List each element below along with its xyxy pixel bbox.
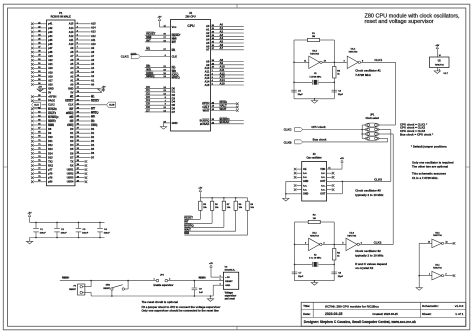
- capacitor C4 100nF: [99, 222, 101, 228]
- U1 pin 33 A3: [211, 35, 244, 37]
- U1 pin 37 A7: [211, 49, 244, 51]
- svg-text:RESET: RESET: [199, 278, 207, 280]
- U1 pin 16 /INT: [145, 41, 171, 43]
- U1 pin 35 A5: [211, 42, 244, 44]
- wire osc2 input rail: [294, 222, 296, 281]
- svg-text:Schematic:: Schematic:: [422, 304, 439, 308]
- svg-text:M1: M1: [146, 47, 150, 51]
- svg-text:100nF: 100nF: [82, 233, 89, 235]
- U1 pin 31 A1: [211, 29, 244, 31]
- title block: [301, 302, 466, 326]
- ground U2 pin 7: [436, 68, 438, 71]
- svg-text:RX2: RX2: [48, 165, 53, 168]
- svg-text:22pF: 22pF: [338, 276, 344, 278]
- svg-text:TX: TX: [70, 160, 74, 163]
- oscillator 2 feedback resistor R2 1M: [295, 221, 309, 223]
- svg-text:CLK2: CLK2: [374, 240, 382, 244]
- X3 VDD to +5V: [341, 164, 343, 169]
- svg-text:U2.2: U2.2: [312, 233, 317, 235]
- U1 pin 21 /RD: [145, 67, 171, 69]
- wire reset ground rail: [91, 295, 213, 297]
- ground unused gates: [416, 288, 422, 291]
- wire /RESET net: [60, 280, 156, 282]
- svg-text:74HCT04: 74HCT04: [348, 50, 358, 53]
- wire CLK1 from U2.4 output to JP1: [361, 61, 396, 63]
- svg-text:HALT2: HALT2: [48, 112, 56, 115]
- U1 pin 25 /BUSRQ: [211, 120, 244, 122]
- svg-text:D0: D0: [172, 86, 176, 90]
- U1 pin 36 A6: [211, 45, 244, 47]
- svg-text:74HCT04: 74HCT04: [435, 63, 445, 66]
- svg-text:CLK2: CLK2: [48, 104, 55, 107]
- U1 pin 40 A10: [211, 67, 244, 69]
- svg-text:+RFSH: +RFSH: [48, 96, 56, 99]
- svg-text:Z80 CPU: Z80 CPU: [185, 15, 195, 18]
- wire CLKC to U1 CLK pin 6: [140, 56, 170, 58]
- svg-text:U2.4: U2.4: [351, 47, 356, 50]
- svg-text:A3: A3: [206, 34, 210, 38]
- U1 pin 12 D2: [145, 94, 171, 96]
- svg-text:p45: p45: [48, 39, 53, 42]
- svg-text:+5V: +5V: [102, 86, 106, 88]
- svg-text:CLKB: CLKB: [284, 140, 292, 144]
- svg-text:A5: A5: [206, 41, 210, 45]
- wire decoupling ground rail: [30, 237, 105, 239]
- svg-text:M1: M1: [70, 96, 74, 99]
- resistor R8 10k pull-up: [235, 197, 237, 199]
- U1 pin 9 D5: [145, 104, 171, 106]
- capacitor C3 100nF: [78, 222, 80, 228]
- svg-text:D11: D11: [48, 140, 53, 143]
- svg-text:n.c.: n.c.: [303, 176, 307, 179]
- U1 pin 17 /NMI: [145, 38, 171, 40]
- svg-text:PAGE: PAGE: [48, 100, 55, 103]
- svg-text:CPU: CPU: [187, 24, 195, 28]
- ground osc2: [311, 283, 317, 286]
- svg-text:RESET: RESET: [225, 281, 233, 283]
- svg-text:Only one supervisor should be: Only one supervisor should be connected …: [142, 309, 220, 313]
- inverter U2.3 74HCT04: [346, 238, 357, 250]
- resistor R9 10k pull-up: [247, 198, 249, 201]
- wire U2.2 output to U2.3 input: [322, 243, 346, 245]
- U1 pin 11 Vcc +5V power: [158, 18, 161, 22]
- svg-text:RFSH: RFSH: [202, 102, 209, 106]
- svg-text:WAIT: WAIT: [220, 107, 227, 111]
- svg-text:+5V: +5V: [158, 17, 162, 19]
- svg-text:1 of 1: 1 of 1: [455, 312, 463, 316]
- svg-text:A13: A13: [69, 31, 74, 34]
- svg-text:RESET: RESET: [65, 100, 74, 103]
- svg-text:+5V: +5V: [198, 188, 202, 190]
- svg-text:DS1233-5+: DS1233-5+: [225, 270, 236, 272]
- svg-text:RD: RD: [172, 66, 176, 70]
- wire U2.5 output to U2.4 input: [322, 61, 347, 63]
- wire /NMI pull-up net: [247, 210, 249, 235]
- svg-text:1: 1: [154, 278, 155, 280]
- svg-text:Date:: Date:: [303, 312, 310, 316]
- svg-text:Clock oscillator #3: Clock oscillator #3: [355, 189, 381, 193]
- svg-text:n.c.: n.c.: [303, 189, 307, 192]
- wire osc1 input rail: [293, 40, 295, 99]
- wire /INT pull-up net: [211, 210, 213, 223]
- U1 pin 2 A12: [211, 74, 244, 76]
- capacitor C2 100nF: [56, 222, 58, 228]
- svg-text:7.3728 MHz: 7.3728 MHz: [309, 76, 322, 78]
- wire X3 OUT join: [341, 181, 343, 193]
- U1 pin 15 D1: [145, 91, 171, 93]
- svg-text:OE: OE: [303, 168, 307, 171]
- wire CLK3 to JP1: [342, 180, 390, 182]
- svg-text:MREQ: MREQ: [146, 74, 155, 78]
- svg-text:A17: A17: [48, 79, 53, 82]
- svg-text:MREQ: MREQ: [91, 112, 99, 115]
- svg-text:A16: A16: [48, 84, 53, 87]
- wire P3 pin1 to /RESET: [82, 286, 91, 288]
- svg-text:U2.3: U2.3: [349, 233, 354, 235]
- svg-text:CLK2: CLK2: [34, 104, 39, 106]
- svg-text:1M: 1M: [313, 218, 316, 220]
- svg-text:14: 14: [328, 166, 330, 169]
- svg-text:n.c.: n.c.: [321, 176, 325, 179]
- svg-text:IORQ: IORQ: [91, 124, 97, 127]
- svg-text:D10: D10: [48, 136, 53, 139]
- IC U2 74HCT04 power unit +5V: [436, 46, 439, 50]
- svg-text:WAIT: WAIT: [203, 108, 210, 112]
- wire SW1 to /RESET: [125, 288, 129, 290]
- svg-text:1: 1: [220, 275, 221, 277]
- svg-text:n.c.: n.c.: [321, 172, 325, 175]
- svg-text:MREQ: MREQ: [172, 76, 180, 80]
- svg-text:D7: D7: [146, 108, 150, 112]
- svg-text:p41: p41: [48, 23, 53, 26]
- svg-text:BUSAK: BUSAK: [200, 122, 210, 126]
- svg-text:CLKC: CLKC: [130, 54, 136, 56]
- svg-text:IORQ: IORQ: [172, 72, 179, 76]
- wire osc1 bottom to ground: [294, 98, 334, 100]
- U1 pin 24 /WAIT: [211, 110, 237, 112]
- U1 pin 7 D4: [145, 101, 171, 103]
- svg-text:BUSAK: BUSAK: [48, 108, 57, 111]
- svg-text:typically 2 to 10 MHz: typically 2 to 10 MHz: [355, 254, 384, 258]
- svg-text:13: 13: [428, 242, 430, 244]
- svg-text:A10: A10: [204, 66, 209, 70]
- svg-text:Sheet:: Sheet:: [422, 312, 431, 316]
- svg-text:RESET: RESET: [62, 277, 70, 279]
- svg-text:GND: GND: [172, 121, 178, 125]
- svg-text:A14: A14: [91, 27, 96, 30]
- svg-text:5V: 5V: [48, 92, 51, 95]
- wire P3 pin2 to ground rail: [82, 291, 91, 293]
- svg-text:A11: A11: [69, 39, 74, 42]
- svg-text:Bus clock = CPU clock *: Bus clock = CPU clock *: [400, 132, 434, 136]
- svg-text:BUSRQ2: BUSRQ2: [48, 116, 59, 119]
- svg-text:Can oscillator: Can oscillator: [306, 157, 321, 160]
- U1 pin 20 /IORQ: [145, 73, 171, 75]
- svg-text:100nF: 100nF: [104, 233, 111, 235]
- U1 pin 23 /BUSAK: [211, 123, 244, 125]
- svg-text:A20: A20: [48, 67, 53, 70]
- svg-text:CPU clock: CPU clock: [311, 125, 326, 129]
- svg-text:A22: A22: [48, 59, 53, 62]
- resistor R7 10k pull-up: [223, 197, 225, 199]
- wire /BUSRQ pull-up net: [223, 210, 225, 227]
- svg-text:WR: WR: [91, 116, 95, 119]
- svg-text:p46: p46: [48, 43, 53, 46]
- svg-text:U1: U1: [189, 11, 193, 15]
- U1 pin 8 D3: [145, 98, 171, 100]
- svg-text:A12: A12: [204, 73, 209, 77]
- svg-text:INT: INT: [69, 108, 74, 111]
- svg-text:RESET: RESET: [69, 289, 76, 291]
- svg-text:A15: A15: [91, 23, 96, 26]
- svg-text:USR4: USR4: [67, 181, 74, 184]
- svg-text:5V: 5V: [70, 92, 73, 95]
- svg-text:Clock select: Clock select: [365, 117, 379, 120]
- svg-text:RCBUS 80 MALE: RCBUS 80 MALE: [51, 16, 71, 19]
- svg-text:2 to 10 MHz: 2 to 10 MHz: [309, 257, 322, 260]
- svg-text:Title:: Title:: [303, 304, 310, 308]
- svg-text:NMI2: NMI2: [48, 124, 55, 127]
- svg-text:D7: D7: [172, 110, 176, 114]
- svg-text:GND: GND: [68, 88, 74, 91]
- svg-text:RX: RX: [70, 165, 74, 168]
- svg-text:22pF: 22pF: [338, 94, 344, 96]
- svg-text:n.c.: n.c.: [303, 172, 307, 175]
- svg-text:p80: p80: [48, 181, 53, 184]
- U1 pin 30 A0: [211, 25, 244, 27]
- inverter U2.4 74HCT04: [347, 56, 358, 68]
- ground osc1: [311, 101, 317, 104]
- svg-text:p42: p42: [48, 27, 53, 30]
- wire unused gate inputs to ground: [418, 243, 420, 287]
- U1 pin 10 D6: [145, 108, 171, 110]
- svg-text:2: 2: [220, 279, 221, 281]
- resistor R5 10k pull-up: [199, 198, 201, 201]
- svg-text:74HCT04: 74HCT04: [310, 235, 320, 238]
- svg-text:MREQ: MREQ: [66, 112, 74, 115]
- svg-text:n.c.: n.c.: [321, 189, 325, 192]
- svg-text:A12: A12: [69, 35, 74, 38]
- U1 pin 29 GND ground: [164, 122, 171, 124]
- resistor R6 10k pull-up: [211, 197, 213, 199]
- U1 pin 13 D7: [145, 111, 171, 113]
- wire JP2 to U3 RESET: [168, 280, 224, 282]
- svg-text:p44: p44: [48, 35, 53, 38]
- svg-text:supervisor: supervisor: [225, 296, 237, 298]
- svg-text:A21: A21: [48, 63, 53, 66]
- U1 pin 19 /MREQ: [145, 77, 171, 79]
- connector P3 RESET: [78, 284, 85, 295]
- capacitor C9 1uF: [193, 281, 195, 288]
- svg-text:D15: D15: [48, 156, 53, 159]
- U1 pin 18 /HALT: [211, 106, 237, 108]
- svg-text:A7: A7: [220, 46, 224, 50]
- svg-text:and reset: and reset: [225, 298, 235, 301]
- svg-text:USR2: USR2: [67, 173, 74, 176]
- capacitor C5 22pF: [291, 89, 297, 91]
- U1 pin 28 /RFSH: [211, 103, 237, 105]
- svg-text:Voltage: Voltage: [225, 292, 234, 295]
- crystal X2: [295, 263, 312, 265]
- svg-text:14: 14: [439, 54, 441, 57]
- svg-text:reset and voltage supervisor: reset and voltage supervisor: [365, 19, 434, 25]
- svg-text:M1: M1: [172, 48, 176, 52]
- svg-text:CLKC: CLKC: [284, 128, 293, 132]
- svg-text:GND: GND: [303, 193, 309, 196]
- svg-text:RESET: RESET: [91, 100, 100, 103]
- svg-text:A14: A14: [69, 27, 74, 30]
- svg-text:CLK: CLK: [172, 54, 178, 58]
- svg-text:Bus clock: Bus clock: [313, 138, 327, 142]
- svg-text:D12: D12: [48, 144, 53, 147]
- +5V pull-up rail: [199, 189, 202, 193]
- svg-text:100nF: 100nF: [40, 233, 47, 235]
- svg-text:USR3: USR3: [67, 177, 74, 180]
- wire JP1 left common bar: [361, 125, 363, 139]
- svg-text:U2.5: U2.5: [312, 50, 317, 52]
- svg-text:OUT: OUT: [320, 180, 326, 183]
- U1 pin 22 /WR: [145, 70, 171, 72]
- svg-text:CLK: CLK: [68, 104, 73, 107]
- wire JP1 row2 to CLK3: [381, 129, 391, 131]
- svg-text:22pF: 22pF: [298, 94, 304, 96]
- svg-text:n.c.: n.c.: [303, 184, 307, 187]
- U1 pin 32 A2: [211, 32, 244, 34]
- svg-text:D13: D13: [48, 148, 53, 151]
- svg-text:Designer: Stephen C Cousins, S: Designer: Stephen C Cousins, Small Compu…: [304, 320, 416, 324]
- inverter U2.1 74HCT04 unused: [432, 271, 442, 280]
- svg-text:typically 2 to 10 MHz: typically 2 to 10 MHz: [355, 193, 384, 197]
- svg-text:p47: p47: [48, 47, 53, 50]
- svg-text:A8: A8: [206, 59, 210, 63]
- svg-text:TX2: TX2: [48, 160, 53, 163]
- svg-text:RESET: RESET: [103, 288, 110, 290]
- svg-text:INT: INT: [172, 40, 177, 44]
- svg-text:p77: p77: [48, 169, 53, 172]
- svg-text:74HCT04: 74HCT04: [433, 266, 442, 269]
- capacitor C8 22pF: [331, 271, 337, 273]
- svg-text:100nF: 100nF: [61, 233, 68, 235]
- inverter U2.5 74HCT04: [294, 61, 309, 63]
- svg-text:74HCT04: 74HCT04: [310, 52, 320, 55]
- svg-text:P1: P1: [59, 11, 63, 15]
- svg-text:WAIT2: WAIT2: [48, 120, 56, 123]
- wire SW1 to ground rail: [111, 290, 113, 296]
- svg-text:A13: A13: [91, 31, 96, 34]
- svg-text:A23: A23: [48, 55, 53, 58]
- svg-text:SC706: Z80 CPU module for RC2B: SC706: Z80 CPU module for RC2Bus: [325, 304, 379, 308]
- U1 pin 34 A4: [211, 39, 244, 41]
- inverter U2.6 74HCT04 unused: [432, 239, 442, 248]
- wire CLK2 from U2.3 output to JP1: [360, 243, 394, 245]
- wire osc2 bottom to ground: [295, 280, 335, 282]
- svg-text:Only one oscillator is require: Only one oscillator is required: [412, 160, 454, 164]
- svg-text:WR: WR: [69, 116, 73, 119]
- U1 pin 38 A8: [211, 61, 244, 63]
- svg-text:CLKC: CLKC: [121, 55, 130, 59]
- wire JP1 row3 to CLK2: [381, 133, 393, 135]
- svg-text:+5V: +5V: [435, 45, 439, 47]
- svg-text:X1 is a 7.3728 MHz.: X1 is a 7.3728 MHz.: [412, 176, 439, 180]
- inverter U2.2 74HCT04: [295, 243, 309, 245]
- svg-text:7.3728 MHz: 7.3728 MHz: [355, 73, 371, 77]
- svg-text:A18: A18: [48, 75, 53, 78]
- svg-text:D4: D4: [172, 100, 176, 104]
- U1 pin 14 D0: [145, 87, 171, 89]
- svg-text:Created: 2023-03-25: Created: 2023-03-25: [372, 312, 398, 316]
- ground X3: [283, 198, 289, 201]
- U1 pin 1 A11: [211, 71, 244, 73]
- svg-text:+5V: +5V: [38, 86, 42, 88]
- osc2 output rail with resistor R4 1k: [333, 222, 335, 249]
- svg-text:on crystal X2: on crystal X2: [355, 266, 373, 270]
- svg-text:INT: INT: [146, 38, 151, 42]
- svg-text:IORQ: IORQ: [67, 124, 73, 127]
- U1 pin 26 /RESET: [145, 34, 171, 36]
- osc1 output rail with resistor R3 1k: [333, 40, 335, 67]
- +5V decoupling rail: [28, 214, 31, 218]
- crystal X1 7.3728 MHz: [294, 81, 312, 83]
- wire /RESET pull-up net: [199, 210, 201, 219]
- svg-text:p79: p79: [48, 177, 53, 180]
- wire X3 GND pins to ground: [285, 181, 287, 198]
- U1 pin 3 A13: [211, 77, 244, 79]
- U3 +5V pin: [210, 265, 213, 269]
- svg-text:A7: A7: [206, 48, 210, 52]
- svg-text:BUSRQ: BUSRQ: [200, 118, 210, 122]
- U1 pin 4 A14: [211, 81, 244, 83]
- svg-text:USR1: USR1: [67, 169, 74, 172]
- oscillator 1 feedback resistor R1 1M: [294, 39, 308, 41]
- svg-text:D6: D6: [172, 106, 176, 110]
- svg-text:A12: A12: [91, 35, 96, 38]
- svg-text:2023-03-25: 2023-03-25: [325, 312, 342, 316]
- wire /WAIT pull-up net: [235, 210, 237, 231]
- svg-text:A11: A11: [91, 39, 96, 42]
- svg-text:The other two are optional: The other two are optional: [412, 165, 448, 169]
- svg-text:A19: A19: [48, 71, 53, 74]
- svg-text:* Default jumper positions: * Default jumper positions: [411, 145, 447, 149]
- svg-text:+ 5V: + 5V: [225, 277, 230, 279]
- wire JP1 row1 to CLK1: [381, 124, 396, 126]
- svg-text:A10: A10: [91, 43, 96, 46]
- svg-text:p48: p48: [48, 51, 53, 54]
- svg-text:GND: GND: [225, 285, 230, 287]
- svg-text:GND: GND: [303, 180, 309, 183]
- svg-text:A0: A0: [206, 24, 210, 28]
- svg-text:p78: p78: [48, 173, 53, 176]
- svg-text:RD: RD: [70, 120, 74, 123]
- svg-text:A15: A15: [204, 83, 209, 87]
- svg-text:OUT: OUT: [320, 193, 326, 196]
- svg-text:GND: GND: [48, 88, 54, 91]
- U1 pin 5 A15: [211, 84, 244, 86]
- ground decoupling rail: [26, 241, 32, 244]
- svg-text:BUSAK: BUSAK: [220, 120, 230, 124]
- svg-text:+5V: +5V: [340, 158, 344, 160]
- svg-text:VDD: VDD: [320, 168, 325, 171]
- svg-text:CLK1: CLK1: [374, 58, 382, 62]
- svg-text:74HCT04: 74HCT04: [433, 234, 442, 237]
- U3 GND pin to rail: [213, 284, 223, 286]
- capacitor C1 100nF: [35, 222, 37, 228]
- svg-text:CLK3: CLK3: [374, 177, 382, 181]
- svg-text:+5V: +5V: [28, 213, 32, 215]
- svg-text:1uF: 1uF: [199, 292, 204, 294]
- svg-text:A14: A14: [204, 80, 209, 84]
- svg-text:2: 2: [169, 278, 170, 280]
- ground reset rail: [210, 296, 212, 299]
